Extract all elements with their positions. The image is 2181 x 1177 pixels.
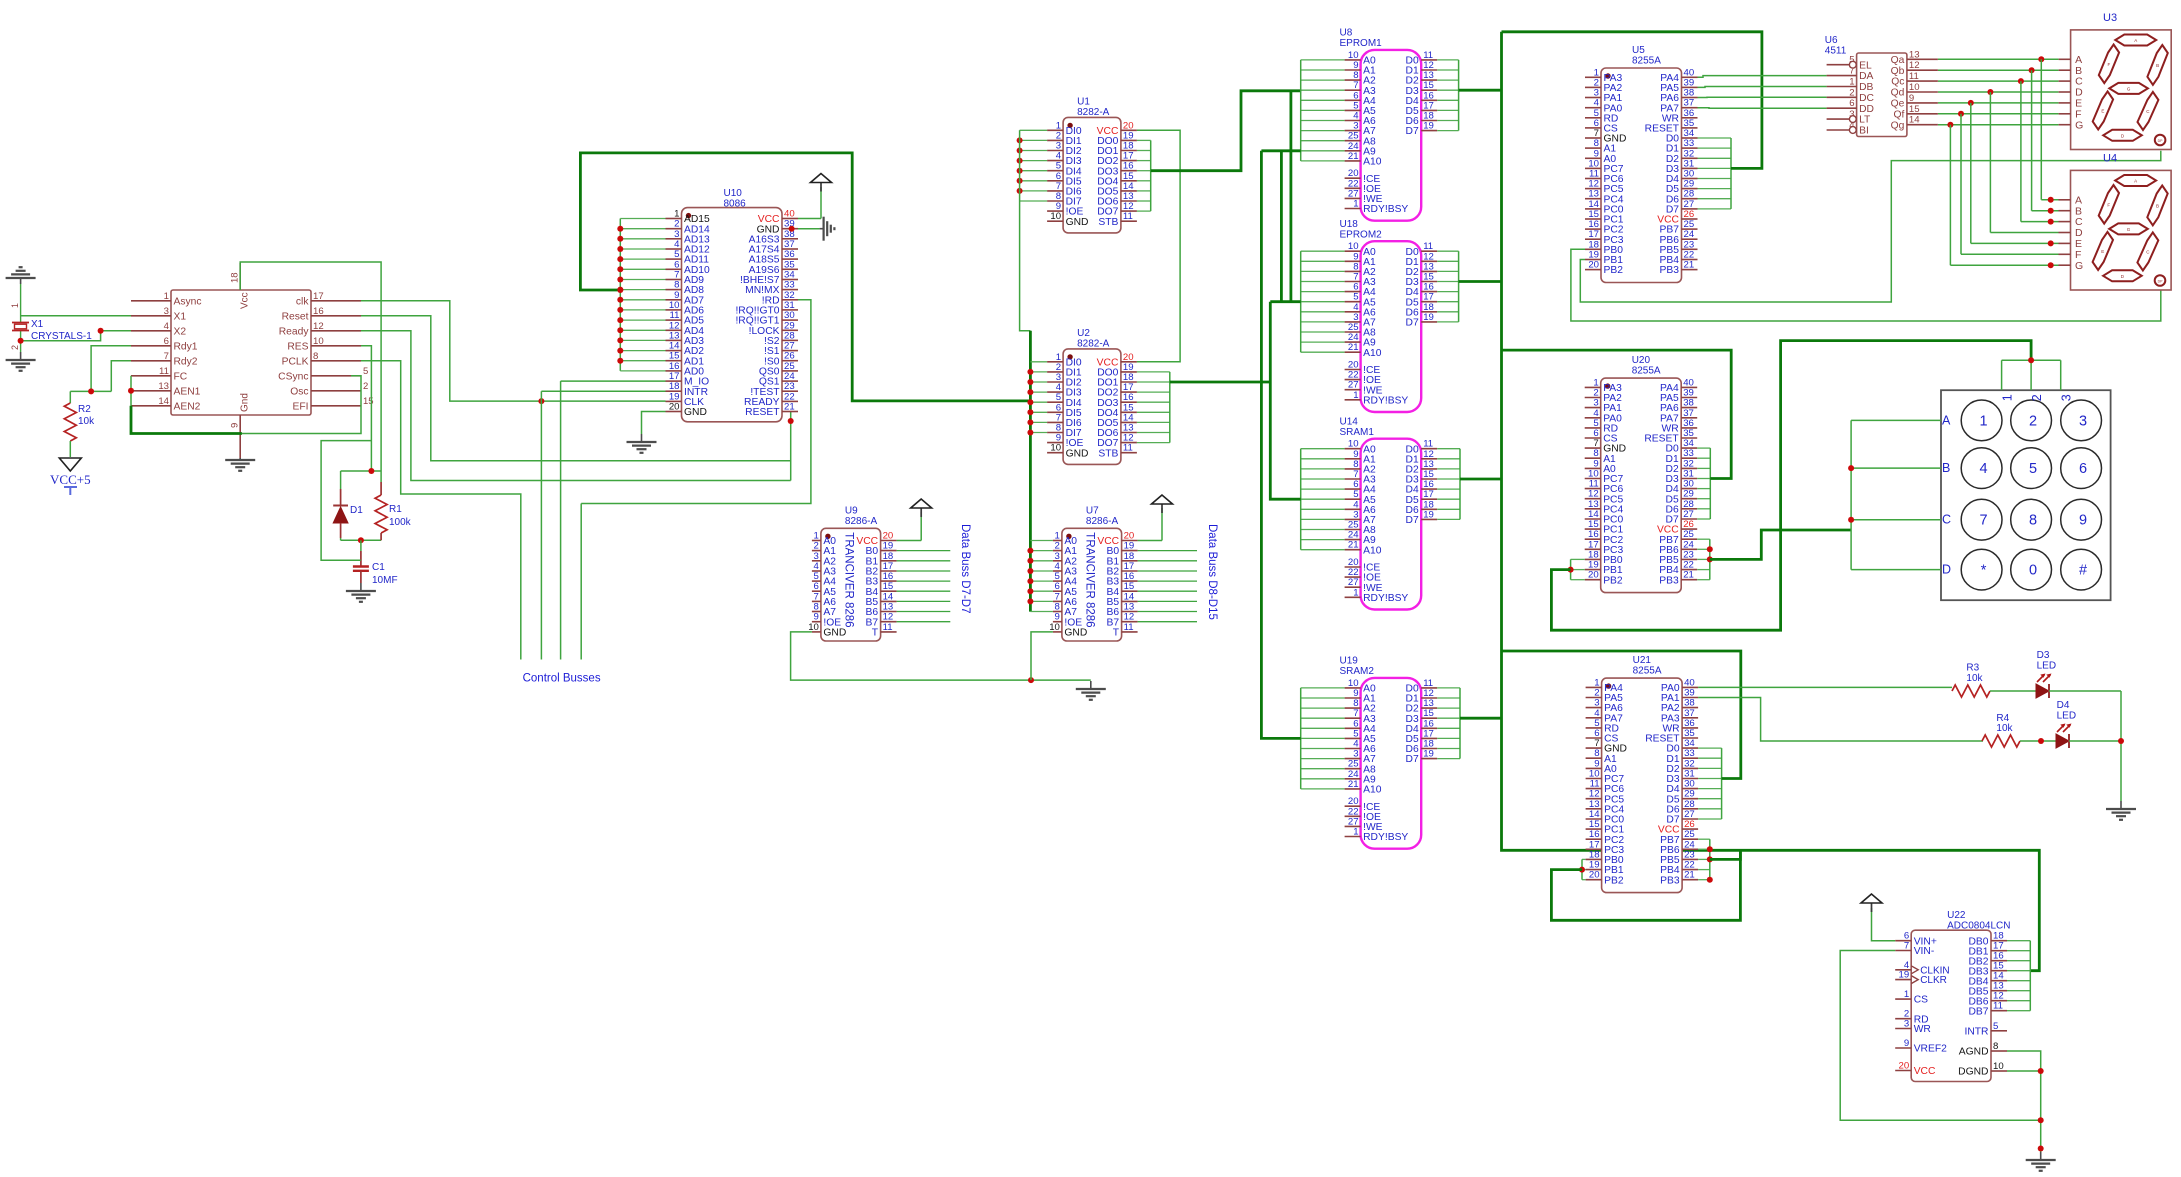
svg-text:8: 8 [2029, 513, 2037, 529]
svg-text:19: 19 [1423, 121, 1434, 132]
svg-text:Qf: Qf [1894, 109, 1905, 120]
svg-text:14: 14 [158, 396, 169, 407]
svg-text:4: 4 [164, 321, 170, 332]
svg-text:U5: U5 [1632, 45, 1645, 56]
svg-text:10k: 10k [1996, 723, 2013, 734]
svg-text:CSync: CSync [278, 371, 308, 382]
svg-text:DP: DP [2158, 139, 2164, 143]
svg-text:1: 1 [1904, 989, 1909, 1000]
svg-text:AGND: AGND [1959, 1047, 1989, 1058]
svg-text:DA: DA [1859, 71, 1873, 82]
svg-text:19: 19 [1423, 312, 1434, 323]
svg-text:9: 9 [230, 423, 241, 428]
svg-text:Qe: Qe [1891, 99, 1905, 110]
svg-text:21: 21 [1684, 260, 1695, 271]
svg-text:BI: BI [1859, 126, 1869, 137]
svg-text:X1: X1 [31, 319, 44, 330]
svg-text:13: 13 [1909, 49, 1920, 60]
svg-text:clk: clk [296, 296, 309, 307]
svg-text:DB7: DB7 [1968, 1006, 1988, 1017]
svg-text:SRAM2: SRAM2 [1340, 666, 1375, 677]
svg-text:#: # [2079, 563, 2087, 579]
svg-text:EFI: EFI [292, 401, 308, 412]
svg-text:2: 2 [1849, 87, 1854, 98]
svg-text:PCLK: PCLK [282, 356, 309, 367]
svg-text:10k: 10k [1966, 673, 1983, 684]
svg-text:Control Busses: Control Busses [523, 673, 601, 685]
svg-text:U6: U6 [1825, 35, 1838, 46]
svg-text:Rdy1: Rdy1 [174, 341, 198, 352]
svg-text:*: * [1981, 563, 1987, 579]
svg-text:D7: D7 [1406, 515, 1419, 526]
svg-text:LED: LED [2037, 661, 2056, 672]
svg-text:11: 11 [883, 622, 893, 633]
svg-text:8: 8 [1993, 1041, 1998, 1052]
svg-text:Qd: Qd [1891, 88, 1905, 99]
svg-text:8086: 8086 [724, 199, 747, 210]
svg-text:DP: DP [2158, 280, 2164, 284]
svg-text:10: 10 [313, 336, 324, 347]
svg-text:9: 9 [1904, 1038, 1909, 1049]
svg-text:U18: U18 [1340, 219, 1359, 230]
svg-text:20: 20 [1589, 870, 1600, 881]
svg-text:U3: U3 [2103, 12, 2117, 24]
svg-text:G: G [2127, 86, 2131, 91]
svg-text:D7: D7 [1406, 126, 1419, 137]
svg-text:10: 10 [1909, 82, 1920, 93]
svg-text:14: 14 [1909, 115, 1920, 126]
svg-text:STB: STB [1098, 217, 1118, 228]
svg-text:6: 6 [2079, 461, 2087, 477]
svg-text:LT: LT [1859, 115, 1871, 126]
svg-text:STB: STB [1098, 448, 1118, 459]
svg-text:PB2: PB2 [1603, 575, 1623, 586]
svg-text:Data Buss D7-D7: Data Buss D7-D7 [959, 524, 971, 613]
svg-text:AEN2: AEN2 [174, 401, 201, 412]
svg-text:PB2: PB2 [1604, 265, 1624, 276]
svg-text:U14: U14 [1340, 416, 1359, 427]
svg-text:8286-A: 8286-A [845, 516, 878, 527]
svg-text:X2: X2 [174, 326, 187, 337]
svg-text:15: 15 [1909, 104, 1920, 115]
svg-text:9: 9 [1909, 93, 1914, 104]
svg-text:20: 20 [669, 402, 680, 413]
svg-text:RESET: RESET [745, 407, 780, 418]
svg-text:A10: A10 [1363, 348, 1382, 359]
svg-text:1: 1 [1849, 77, 1854, 88]
svg-text:1: 1 [1353, 199, 1358, 210]
svg-text:U9: U9 [845, 505, 858, 516]
svg-text:D3: D3 [2037, 650, 2050, 661]
svg-text:B: B [1942, 461, 1950, 475]
svg-text:5: 5 [1993, 1021, 1998, 1032]
svg-text:Qc: Qc [1891, 77, 1904, 88]
svg-text:5: 5 [2029, 461, 2037, 477]
svg-text:21: 21 [1684, 870, 1695, 881]
svg-text:8255A: 8255A [1632, 366, 1661, 377]
svg-text:1: 1 [2001, 394, 2015, 401]
svg-text:2: 2 [10, 345, 20, 350]
svg-text:TRANCIVER 8286: TRANCIVER 8286 [1083, 532, 1095, 627]
svg-text:21: 21 [1348, 151, 1359, 162]
svg-text:1: 1 [164, 291, 169, 302]
svg-text:SRAM1: SRAM1 [1340, 427, 1375, 438]
svg-text:1: 1 [1980, 413, 1988, 429]
svg-text:3: 3 [2060, 394, 2074, 401]
svg-text:A: A [2134, 38, 2137, 43]
svg-text:DD: DD [1859, 104, 1874, 115]
svg-text:1: 1 [1353, 390, 1358, 401]
svg-text:10: 10 [1993, 1061, 2004, 1072]
svg-text:20: 20 [1899, 1061, 1910, 1072]
svg-text:1: 1 [10, 303, 20, 308]
svg-text:VREF2: VREF2 [1914, 1044, 1947, 1055]
svg-text:8255A: 8255A [1632, 56, 1661, 67]
svg-text:R2: R2 [78, 404, 91, 415]
svg-text:D7: D7 [1406, 318, 1419, 329]
svg-text:GND: GND [1066, 448, 1089, 459]
svg-text:1: 1 [1353, 587, 1358, 598]
svg-text:5: 5 [363, 366, 368, 377]
svg-text:PB3: PB3 [1660, 265, 1680, 276]
svg-text:6: 6 [1849, 98, 1854, 109]
svg-text:LED: LED [2057, 711, 2076, 722]
svg-text:6: 6 [164, 336, 169, 347]
svg-text:C: C [1942, 513, 1951, 527]
svg-text:0: 0 [2029, 563, 2037, 579]
svg-text:3: 3 [164, 306, 169, 317]
svg-text:G: G [2075, 260, 2083, 272]
svg-text:PB3: PB3 [1659, 575, 1679, 586]
svg-text:U20: U20 [1632, 355, 1651, 366]
svg-text:U4: U4 [2103, 152, 2117, 164]
svg-text:CLKR: CLKR [1920, 975, 1947, 986]
svg-text:R1: R1 [389, 504, 402, 515]
svg-text:WR: WR [1914, 1024, 1931, 1035]
svg-text:D: D [1942, 563, 1951, 577]
svg-text:21: 21 [1348, 540, 1359, 551]
svg-text:VCC: VCC [1914, 1066, 1936, 1077]
svg-text:Qg: Qg [1891, 120, 1905, 131]
svg-text:U22: U22 [1947, 910, 1966, 921]
svg-text:20: 20 [1588, 570, 1599, 581]
svg-text:DC: DC [1859, 93, 1874, 104]
svg-text:8282-A: 8282-A [1077, 107, 1110, 118]
svg-text:DGND: DGND [1958, 1067, 1988, 1078]
svg-text:18: 18 [230, 272, 241, 283]
svg-text:RDY!BSY: RDY!BSY [1363, 593, 1408, 604]
svg-text:EPROM2: EPROM2 [1340, 229, 1383, 240]
svg-text:8282-A: 8282-A [1077, 339, 1110, 350]
svg-text:GND: GND [823, 628, 846, 639]
svg-text:8255A: 8255A [1633, 666, 1662, 677]
svg-text:U7: U7 [1086, 505, 1099, 516]
svg-text:PB2: PB2 [1604, 875, 1624, 886]
svg-text:Reset: Reset [282, 311, 309, 322]
svg-text:2: 2 [2030, 394, 2044, 401]
svg-text:TRANCIVER 8286: TRANCIVER 8286 [842, 532, 854, 627]
svg-text:Rdy2: Rdy2 [174, 356, 198, 367]
svg-text:10: 10 [1050, 211, 1061, 222]
svg-text:GND: GND [1066, 217, 1089, 228]
svg-text:11: 11 [1909, 71, 1919, 82]
svg-text:U1: U1 [1077, 97, 1090, 108]
svg-text:F: F [2108, 62, 2111, 67]
svg-text:21: 21 [1348, 779, 1359, 790]
svg-text:100k: 100k [389, 517, 412, 528]
svg-text:19: 19 [1423, 509, 1434, 520]
svg-text:D4: D4 [2057, 700, 2070, 711]
svg-text:11: 11 [1123, 443, 1133, 454]
svg-text:E: E [2101, 109, 2104, 114]
svg-text:21: 21 [1348, 342, 1359, 353]
svg-text:D7: D7 [1406, 754, 1419, 765]
svg-text:U19: U19 [1340, 656, 1359, 667]
svg-text:U21: U21 [1633, 655, 1652, 666]
svg-text:13: 13 [158, 381, 169, 392]
svg-text:9: 9 [2079, 513, 2087, 529]
svg-text:G: G [2075, 119, 2083, 131]
svg-text:Vcc: Vcc [240, 292, 251, 309]
svg-text:A10: A10 [1363, 157, 1382, 168]
svg-text:T: T [872, 628, 879, 639]
svg-text:10k: 10k [78, 416, 95, 427]
svg-text:AEN1: AEN1 [174, 386, 201, 397]
svg-text:C1: C1 [372, 562, 385, 573]
svg-text:1: 1 [1353, 827, 1358, 838]
svg-text:PB3: PB3 [1660, 875, 1680, 886]
svg-text:Ready: Ready [279, 326, 310, 337]
svg-text:4511: 4511 [1825, 46, 1847, 57]
svg-text:7: 7 [164, 351, 169, 362]
svg-text:RDY!BSY: RDY!BSY [1363, 832, 1408, 843]
svg-text:RDY!BSY: RDY!BSY [1363, 204, 1408, 215]
svg-text:D1: D1 [350, 505, 363, 516]
svg-text:CS: CS [1914, 995, 1928, 1006]
svg-text:A10: A10 [1363, 785, 1382, 796]
svg-text:Data Buss D8-D15: Data Buss D8-D15 [1206, 524, 1218, 620]
svg-text:12: 12 [1909, 60, 1920, 71]
svg-text:EPROM1: EPROM1 [1340, 38, 1383, 49]
svg-text:GND: GND [1064, 628, 1087, 639]
svg-text:2: 2 [2029, 413, 2037, 429]
svg-text:RDY!BSY: RDY!BSY [1363, 395, 1408, 406]
svg-text:A: A [1942, 413, 1951, 427]
svg-text:B: B [2156, 203, 2159, 208]
svg-text:10: 10 [1050, 443, 1061, 454]
svg-text:G: G [2127, 227, 2131, 232]
svg-text:17: 17 [313, 291, 324, 302]
svg-text:21: 21 [784, 402, 795, 413]
svg-text:DB: DB [1859, 82, 1873, 93]
svg-text:RES: RES [287, 341, 308, 352]
svg-text:E: E [2101, 249, 2104, 254]
svg-text:19: 19 [1423, 749, 1434, 760]
svg-text:R3: R3 [1966, 663, 1979, 674]
svg-text:16: 16 [313, 306, 324, 317]
svg-text:11: 11 [159, 366, 169, 377]
svg-text:INTR: INTR [1964, 1026, 1988, 1037]
svg-text:B: B [2156, 63, 2159, 68]
svg-text:Gnd: Gnd [240, 393, 251, 412]
svg-text:FC: FC [174, 371, 188, 382]
svg-text:Async: Async [174, 296, 202, 307]
svg-text:U8: U8 [1340, 28, 1353, 39]
svg-text:Osc: Osc [290, 386, 308, 397]
svg-text:11: 11 [1123, 211, 1133, 222]
svg-text:3: 3 [1904, 1019, 1909, 1030]
svg-text:X1: X1 [174, 311, 187, 322]
svg-text:VIN-: VIN- [1914, 946, 1935, 957]
svg-text:11: 11 [1124, 622, 1134, 633]
svg-text:Qb: Qb [1891, 66, 1905, 77]
svg-text:12: 12 [313, 321, 324, 332]
svg-text:3: 3 [2079, 413, 2087, 429]
svg-text:U10: U10 [724, 188, 743, 199]
svg-text:20: 20 [1588, 260, 1599, 271]
svg-text:U2: U2 [1077, 328, 1090, 339]
svg-text:7: 7 [1904, 941, 1909, 952]
svg-text:19: 19 [1899, 970, 1910, 981]
svg-text:T: T [1113, 628, 1120, 639]
svg-text:A10: A10 [1363, 545, 1382, 556]
svg-text:GND: GND [684, 407, 707, 418]
svg-text:EL: EL [1859, 60, 1872, 71]
svg-text:F: F [2107, 202, 2110, 207]
svg-text:2: 2 [363, 381, 368, 392]
svg-text:VCC+5: VCC+5 [50, 472, 91, 487]
svg-text:8286-A: 8286-A [1086, 516, 1119, 527]
svg-text:A: A [2134, 179, 2137, 184]
svg-text:10MF: 10MF [372, 575, 398, 586]
svg-text:4: 4 [1980, 461, 1988, 477]
svg-text:8: 8 [313, 351, 318, 362]
svg-text:21: 21 [1683, 570, 1694, 581]
svg-text:Qa: Qa [1891, 55, 1905, 66]
svg-text:7: 7 [1980, 513, 1988, 529]
svg-text:11: 11 [1993, 1001, 2003, 1012]
